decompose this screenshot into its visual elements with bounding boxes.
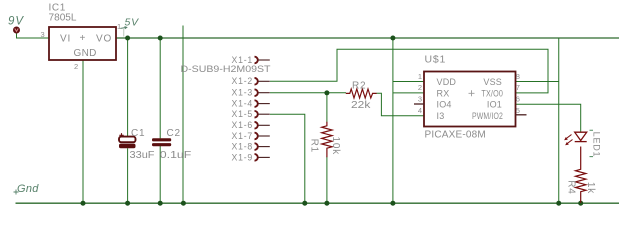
wire C1 branch (127, 38, 129, 137)
wire R1 top (326, 93, 328, 123)
svg-text:X1-4: X1-4 (232, 99, 254, 109)
svg-text:VSS: VSS (483, 77, 502, 87)
svg-text:10k: 10k (330, 137, 341, 156)
resistor R2 (346, 89, 377, 98)
wire 5V rail (116, 37, 619, 39)
svg-text:X1-8: X1-8 (232, 142, 254, 152)
svg-text:2: 2 (418, 83, 422, 92)
resistor R1 (322, 122, 332, 157)
resistor R4 (576, 147, 586, 203)
svg-text:3: 3 (41, 30, 45, 39)
svg-text:Gnd: Gnd (17, 183, 39, 195)
capacitor C2 (152, 138, 171, 146)
chip pin numbers (418, 72, 520, 115)
svg-text:X1-6: X1-6 (232, 120, 254, 130)
svg-text:3: 3 (418, 95, 422, 104)
svg-text:22k: 22k (351, 100, 371, 111)
wire X1-2 to TX (270, 49, 548, 93)
wire C2 branch (159, 38, 161, 138)
svg-text:33uF: 33uF (130, 150, 155, 161)
wire pin6 IO1 to LED (516, 104, 581, 131)
svg-text:X1-1: X1-1 (232, 55, 254, 65)
wire vertical x558.75 (558, 38, 560, 203)
connector X1 pin labels (232, 55, 254, 162)
wire pin8 VSS (516, 81, 559, 83)
svg-text:5V: 5V (125, 17, 140, 29)
svg-text:R4: R4 (565, 180, 576, 194)
LED pin marks (590, 130, 594, 156)
wire X1-5 to ground (270, 114, 305, 203)
wire ground rail (16, 202, 620, 204)
svg-text:6: 6 (516, 95, 520, 104)
svg-text:5: 5 (516, 106, 520, 115)
svg-text:PICAXE-08M: PICAXE-08M (425, 130, 486, 141)
svg-text:LED1: LED1 (592, 132, 602, 158)
wire pin1 VDD (393, 81, 424, 83)
svg-text:TX/O0: TX/O0 (481, 88, 503, 98)
svg-text:VDD: VDD (437, 77, 457, 87)
wire R2 to pin4 (377, 93, 425, 116)
svg-text:C1: C1 (131, 128, 145, 139)
svg-text:9V: 9V (8, 16, 24, 28)
LED arrows (564, 135, 572, 146)
svg-text:0.1uF: 0.1uF (160, 150, 192, 161)
wire 5V to ground vertical x393 (392, 38, 394, 203)
svg-text:8: 8 (516, 72, 520, 81)
wire vertical x183 (182, 26, 184, 204)
svg-text:X1-7: X1-7 (232, 131, 254, 141)
svg-text:1: 1 (418, 72, 422, 81)
svg-text:R2: R2 (352, 80, 366, 91)
svg-text:X1-9: X1-9 (232, 152, 254, 162)
svg-text:I3: I3 (437, 111, 445, 121)
svg-text:1: 1 (117, 22, 121, 31)
svg-text:D-SUB9-H2M09ST: D-SUB9-H2M09ST (181, 64, 271, 75)
svg-text:IO1: IO1 (487, 100, 502, 110)
svg-text:2: 2 (74, 62, 78, 71)
chip origin cross (469, 90, 475, 96)
wire X1-3 to R2 (270, 92, 346, 94)
svg-text:7805L: 7805L (49, 13, 77, 24)
svg-text:RX: RX (437, 88, 450, 98)
svg-text:GND: GND (74, 48, 97, 59)
svg-text:IO4: IO4 (437, 100, 452, 110)
chip pin stubs unconnected (414, 103, 425, 105)
svg-text:VI: VI (60, 34, 71, 45)
chip pin names (437, 77, 504, 121)
svg-text:4: 4 (418, 106, 422, 115)
svg-text:U$1: U$1 (425, 53, 447, 65)
svg-text:X1-2: X1-2 (232, 76, 254, 86)
svg-text:X1-5: X1-5 (232, 109, 254, 119)
connector X1 pins (255, 57, 258, 161)
wire R1 bottom (326, 157, 328, 204)
svg-text:R1: R1 (309, 139, 320, 153)
IC1 7805L regulator (49, 27, 116, 60)
wire pin2 RX (393, 92, 424, 94)
svg-text:PWM/IO2: PWM/IO2 (472, 111, 503, 121)
wire 9V stub (17, 34, 50, 39)
svg-text:7: 7 (516, 83, 520, 92)
svg-text:C2: C2 (167, 128, 181, 139)
svg-text:VO: VO (96, 34, 112, 45)
svg-text:X1-3: X1-3 (232, 88, 254, 98)
chip U$1 (424, 72, 516, 127)
wire IC1 GND pin2 down (82, 61, 84, 204)
supply 9V symbol (13, 27, 20, 34)
svg-text:+: + (80, 33, 86, 44)
svg-text:1k: 1k (585, 182, 596, 194)
LED1 (575, 132, 587, 141)
capacitor C1 (119, 133, 136, 148)
